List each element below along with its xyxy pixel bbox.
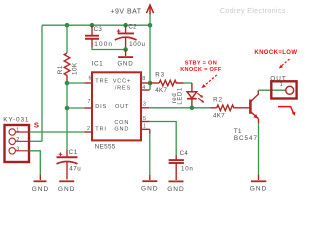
node junction pin8/R3 (148, 81, 153, 86)
node junction R1 bottom / TRE (65, 81, 70, 86)
wire net S module pin1 to IC1 TRI (30, 131, 85, 133)
annotation arrow to LED1 (204, 75, 217, 86)
svg-text:GND: GND (141, 186, 159, 193)
capacitor C3 100n (85, 25, 99, 48)
node A junction rail-R1 (65, 23, 70, 28)
svg-text:GND: GND (32, 186, 50, 193)
svg-text:CON: CON (114, 120, 129, 126)
ground C1 (58, 181, 76, 193)
KY-031 pin pads (9, 129, 15, 135)
connector OUT (271, 81, 296, 98)
svg-text:10n: 10n (181, 165, 194, 172)
ground module pin3 (32, 175, 50, 193)
svg-text:8: 8 (142, 76, 145, 82)
wire OUT net pin3 to R2 (149, 107, 210, 109)
resistor R1 (57, 25, 79, 83)
wire DIS node to IC1 DIS (67, 107, 84, 109)
wire emitter down (258, 123, 260, 175)
svg-text:DIS: DIS (95, 104, 107, 110)
capacitor C1 47u (57, 150, 78, 180)
pin stub DIS 7 (84, 107, 91, 109)
svg-text:+9V BAT: +9V BAT (110, 8, 141, 15)
svg-text:KNOCK=LOW: KNOCK=LOW (254, 50, 297, 56)
svg-text:7: 7 (88, 99, 91, 105)
svg-text:C4: C4 (180, 150, 189, 157)
wire module pin2 to left drop (30, 140, 43, 142)
svg-text:100n: 100n (94, 41, 113, 48)
wire DIS node down to C1 (66, 108, 68, 150)
OUT pad (286, 86, 294, 94)
svg-text:T1: T1 (234, 128, 242, 135)
wire GND pin1 down (149, 129, 151, 133)
pin stub GND 1 (142, 128, 150, 130)
svg-text:10K: 10K (71, 62, 78, 75)
wire C3 bottom to C2 bottom (92, 48, 126, 50)
annotation arrow from OUT box (278, 107, 294, 114)
wire VCC rail down to pins 8/4 (149, 25, 151, 90)
svg-text:KY-031: KY-031 (3, 117, 29, 124)
supply +9V arrow symbol (146, 5, 153, 15)
svg-text:R2: R2 (213, 97, 223, 104)
ground C4 (167, 181, 185, 192)
node junction rail-C2 (123, 23, 128, 28)
svg-text:2: 2 (87, 126, 90, 132)
pin stub CON 5 (142, 121, 150, 123)
svg-text:1: 1 (280, 82, 283, 88)
ground IC1 pin1 (141, 175, 159, 193)
svg-text:Codrey Electronics: Codrey Electronics (220, 6, 286, 15)
ground C2 (117, 50, 133, 68)
svg-text:100u: 100u (129, 41, 146, 48)
svg-text:GND: GND (58, 186, 76, 193)
node junction rail-C3 (90, 23, 95, 28)
pin stub OUT 3 (142, 107, 150, 109)
svg-text:4K7: 4K7 (213, 113, 225, 120)
wire +9V top rail (42, 24, 150, 26)
transistor T1 emitter arrow (253, 114, 258, 119)
svg-text:1: 1 (16, 128, 19, 134)
LED1 light arrow heads (200, 95, 203, 98)
svg-text:TRI: TRI (95, 127, 106, 133)
svg-text:STBY = ON: STBY = ON (185, 60, 217, 66)
connector KY-031 module (5, 125, 30, 162)
capacitor C2 100u (115, 25, 137, 49)
svg-text:TRE: TRE (95, 79, 109, 85)
resistor R2 4K7 (210, 97, 249, 120)
svg-text:/RES: /RES (115, 85, 131, 91)
wire supply stub (149, 15, 151, 26)
svg-text:S: S (34, 120, 39, 129)
wire collector to OUT connector (258, 89, 284, 91)
svg-text:NE555: NE555 (95, 144, 116, 151)
svg-text:GND: GND (114, 127, 129, 133)
pin stub VCC+ 8 (142, 82, 150, 84)
pin stub TRI 2 (84, 131, 91, 133)
KY-031 pin lines (15, 132, 29, 151)
svg-text:3: 3 (16, 146, 19, 152)
resistor R3 4K7 (150, 72, 184, 94)
node junction rail-supply (148, 23, 153, 28)
svg-text:R1: R1 (57, 65, 64, 74)
svg-text:IC1: IC1 (92, 60, 103, 67)
svg-text:C2: C2 (128, 23, 137, 30)
pin stub /RES 4 (142, 89, 150, 91)
svg-text:R3: R3 (155, 72, 165, 79)
svg-text:47u: 47u (69, 165, 81, 172)
OUT pin line (284, 89, 286, 91)
node junction LED/OUT (190, 106, 195, 111)
annotation arrow to OUT (281, 59, 289, 66)
svg-text:C1: C1 (69, 149, 78, 156)
wire R1 node down to DIS node (66, 83, 68, 108)
transistor T1 BC547 (250, 90, 258, 123)
svg-text:3: 3 (143, 101, 146, 107)
svg-text:C3: C3 (94, 26, 103, 33)
LED LED1 red (187, 83, 202, 108)
svg-text:GND: GND (117, 61, 133, 68)
svg-text:GND: GND (250, 186, 268, 193)
node junction DIS (65, 106, 70, 111)
ground T1 emitter (250, 175, 268, 193)
svg-text:BC547: BC547 (234, 135, 258, 142)
pin stub TRE 6 (84, 82, 91, 84)
op-amp IC1 NE555 box (92, 72, 141, 140)
wire R3 to LED1 (184, 82, 192, 84)
wire R1 to IC1 TRE (67, 82, 84, 84)
svg-text:KNOCK = OFF: KNOCK = OFF (180, 67, 222, 73)
svg-text:2: 2 (16, 137, 19, 143)
svg-text:VCC+: VCC+ (113, 79, 131, 85)
node junction C2/C3/GND (123, 47, 128, 52)
svg-text:LED1: LED1 (177, 87, 183, 104)
wire module pin3 to ground (30, 151, 41, 175)
svg-text:1: 1 (143, 123, 146, 129)
svg-text:OUT: OUT (270, 75, 287, 82)
wire +9V left drop to module pin 2 (41, 25, 43, 141)
wire CON pin5 to C4 (150, 122, 176, 156)
svg-text:4K7: 4K7 (155, 87, 167, 94)
svg-text:OUT: OUT (115, 104, 129, 110)
svg-text:GND: GND (167, 186, 185, 193)
svg-text:6: 6 (89, 75, 92, 81)
capacitor C4 10n (169, 155, 184, 180)
